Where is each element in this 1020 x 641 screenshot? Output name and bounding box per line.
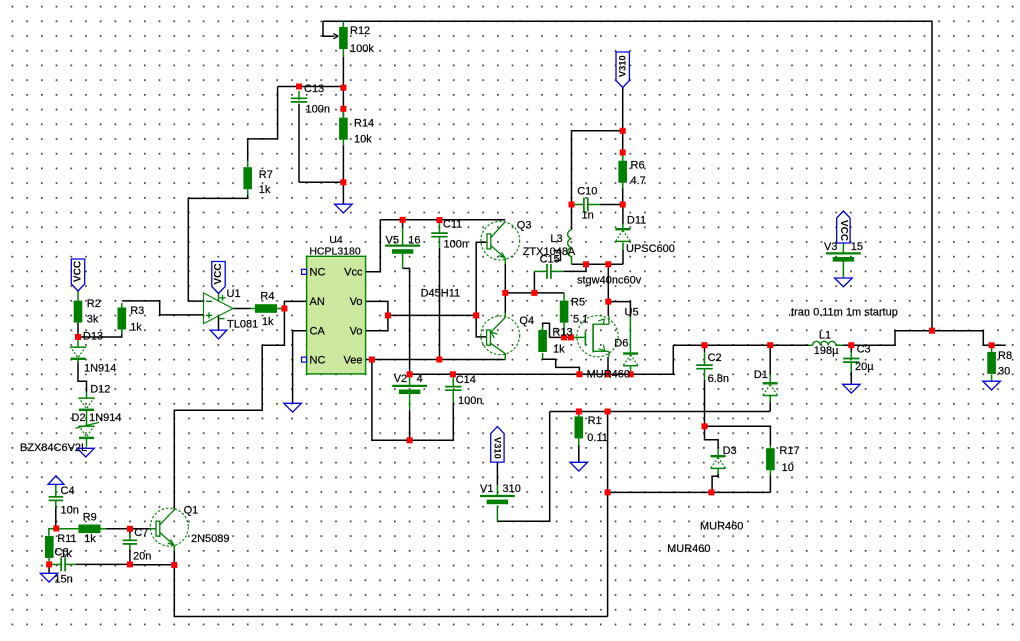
svg-text:C3: C3 [857,344,871,356]
svg-text:NC: NC [310,354,326,366]
svg-text:3k: 3k [87,314,99,326]
svg-text:Q3: Q3 [517,220,532,232]
svg-text:D6: D6 [614,338,628,350]
svg-text:.tran 0.11m 1m startup: .tran 0.11m 1m startup [788,307,898,319]
svg-text:Vo: Vo [350,326,363,338]
svg-text:C2: C2 [708,352,722,364]
svg-text:D1: D1 [754,369,768,381]
svg-text:R17: R17 [779,445,799,457]
svg-text:1k: 1k [84,533,96,545]
svg-text:C6: C6 [54,547,68,559]
svg-text:stgw40nc60v: stgw40nc60v [577,275,642,287]
svg-text:30: 30 [998,366,1010,378]
svg-text:2N5089: 2N5089 [191,533,230,545]
svg-text:R9: R9 [83,512,97,524]
svg-text:R6: R6 [631,160,645,172]
svg-text:1k: 1k [130,322,142,334]
svg-text:100n: 100n [444,239,468,251]
svg-text:1N914: 1N914 [84,363,116,375]
svg-text:VCC: VCC [213,263,224,284]
svg-text:L3: L3 [550,233,562,245]
svg-text:R13: R13 [552,327,572,339]
svg-text:D13: D13 [83,331,103,343]
svg-text:CA: CA [310,326,326,338]
svg-text:L1: L1 [819,330,831,342]
svg-text:1k: 1k [553,344,565,356]
svg-text:C10: C10 [577,186,597,198]
svg-text:U5: U5 [625,307,639,319]
svg-text:100k: 100k [350,43,374,55]
svg-text:C14: C14 [456,374,476,386]
svg-text:R12: R12 [350,25,370,37]
svg-text:R3: R3 [130,305,144,317]
svg-text:D45H11: D45H11 [421,288,461,300]
svg-text:NC: NC [310,267,326,279]
svg-text:R7: R7 [259,169,273,181]
svg-text:R5: R5 [571,297,585,309]
svg-text:100n: 100n [306,104,330,116]
svg-text:6.8n: 6.8n [708,373,729,385]
svg-text:V310: V310 [618,55,628,77]
svg-text:310: 310 [503,483,521,495]
svg-text:15: 15 [851,241,863,253]
svg-text:U4: U4 [329,234,343,246]
svg-text:198µ: 198µ [814,345,839,357]
svg-text:AN: AN [310,296,325,308]
svg-text:MUR460: MUR460 [587,369,630,381]
svg-text:15n: 15n [54,574,72,586]
svg-text:U1: U1 [227,288,241,300]
svg-text:5.1: 5.1 [573,314,588,326]
svg-text:V3: V3 [824,241,837,253]
svg-text:MUR460: MUR460 [700,521,743,533]
svg-text:D12: D12 [90,383,110,395]
svg-text:4.7: 4.7 [631,175,646,187]
svg-text:R4: R4 [260,290,274,302]
svg-text:D2: D2 [72,412,86,424]
svg-text:BZX84C6V2L: BZX84C6V2L [20,442,87,454]
svg-text:1n: 1n [582,210,594,222]
svg-text:R11: R11 [57,533,76,545]
svg-text:Q1: Q1 [184,505,199,517]
svg-text:16: 16 [408,235,420,247]
svg-text:VCC: VCC [838,220,849,241]
svg-text:R2: R2 [87,298,101,310]
svg-text:HCPL3180: HCPL3180 [309,246,361,258]
svg-text:20µ: 20µ [855,361,874,373]
svg-text:D11: D11 [627,215,646,227]
svg-text:10: 10 [782,462,794,474]
svg-text:Q4: Q4 [519,315,534,327]
svg-text:4: 4 [417,373,423,385]
svg-text:V1: V1 [480,483,493,495]
svg-text:10n: 10n [61,505,79,517]
svg-text:C15: C15 [540,254,560,266]
svg-text:VCC: VCC [73,261,84,282]
svg-text:Vee: Vee [344,354,363,366]
svg-text:C13: C13 [304,83,324,95]
svg-text:20n: 20n [133,551,151,563]
svg-text:Vcc: Vcc [344,267,363,279]
svg-text:V5: V5 [386,235,399,247]
svg-text:C7: C7 [134,527,148,539]
svg-text:100n: 100n [458,395,482,407]
svg-text:V2: V2 [394,373,407,385]
svg-text:1k: 1k [262,316,274,328]
svg-text:UPSC600: UPSC600 [626,243,675,255]
svg-text:MUR460: MUR460 [667,543,710,555]
svg-text:R1: R1 [588,415,602,427]
svg-text:R8: R8 [998,350,1012,362]
svg-text:0.11: 0.11 [587,432,608,444]
svg-text:R14: R14 [354,118,374,130]
svg-text:C11: C11 [443,219,462,231]
svg-text:C4: C4 [61,485,75,497]
svg-text:1N914: 1N914 [89,412,121,424]
svg-text:1k: 1k [259,184,271,196]
svg-text:TL081: TL081 [227,319,258,331]
svg-text:V310: V310 [492,437,502,459]
svg-text:10k: 10k [354,134,372,146]
svg-text:Vo: Vo [350,296,363,308]
svg-text:D3: D3 [723,445,737,457]
